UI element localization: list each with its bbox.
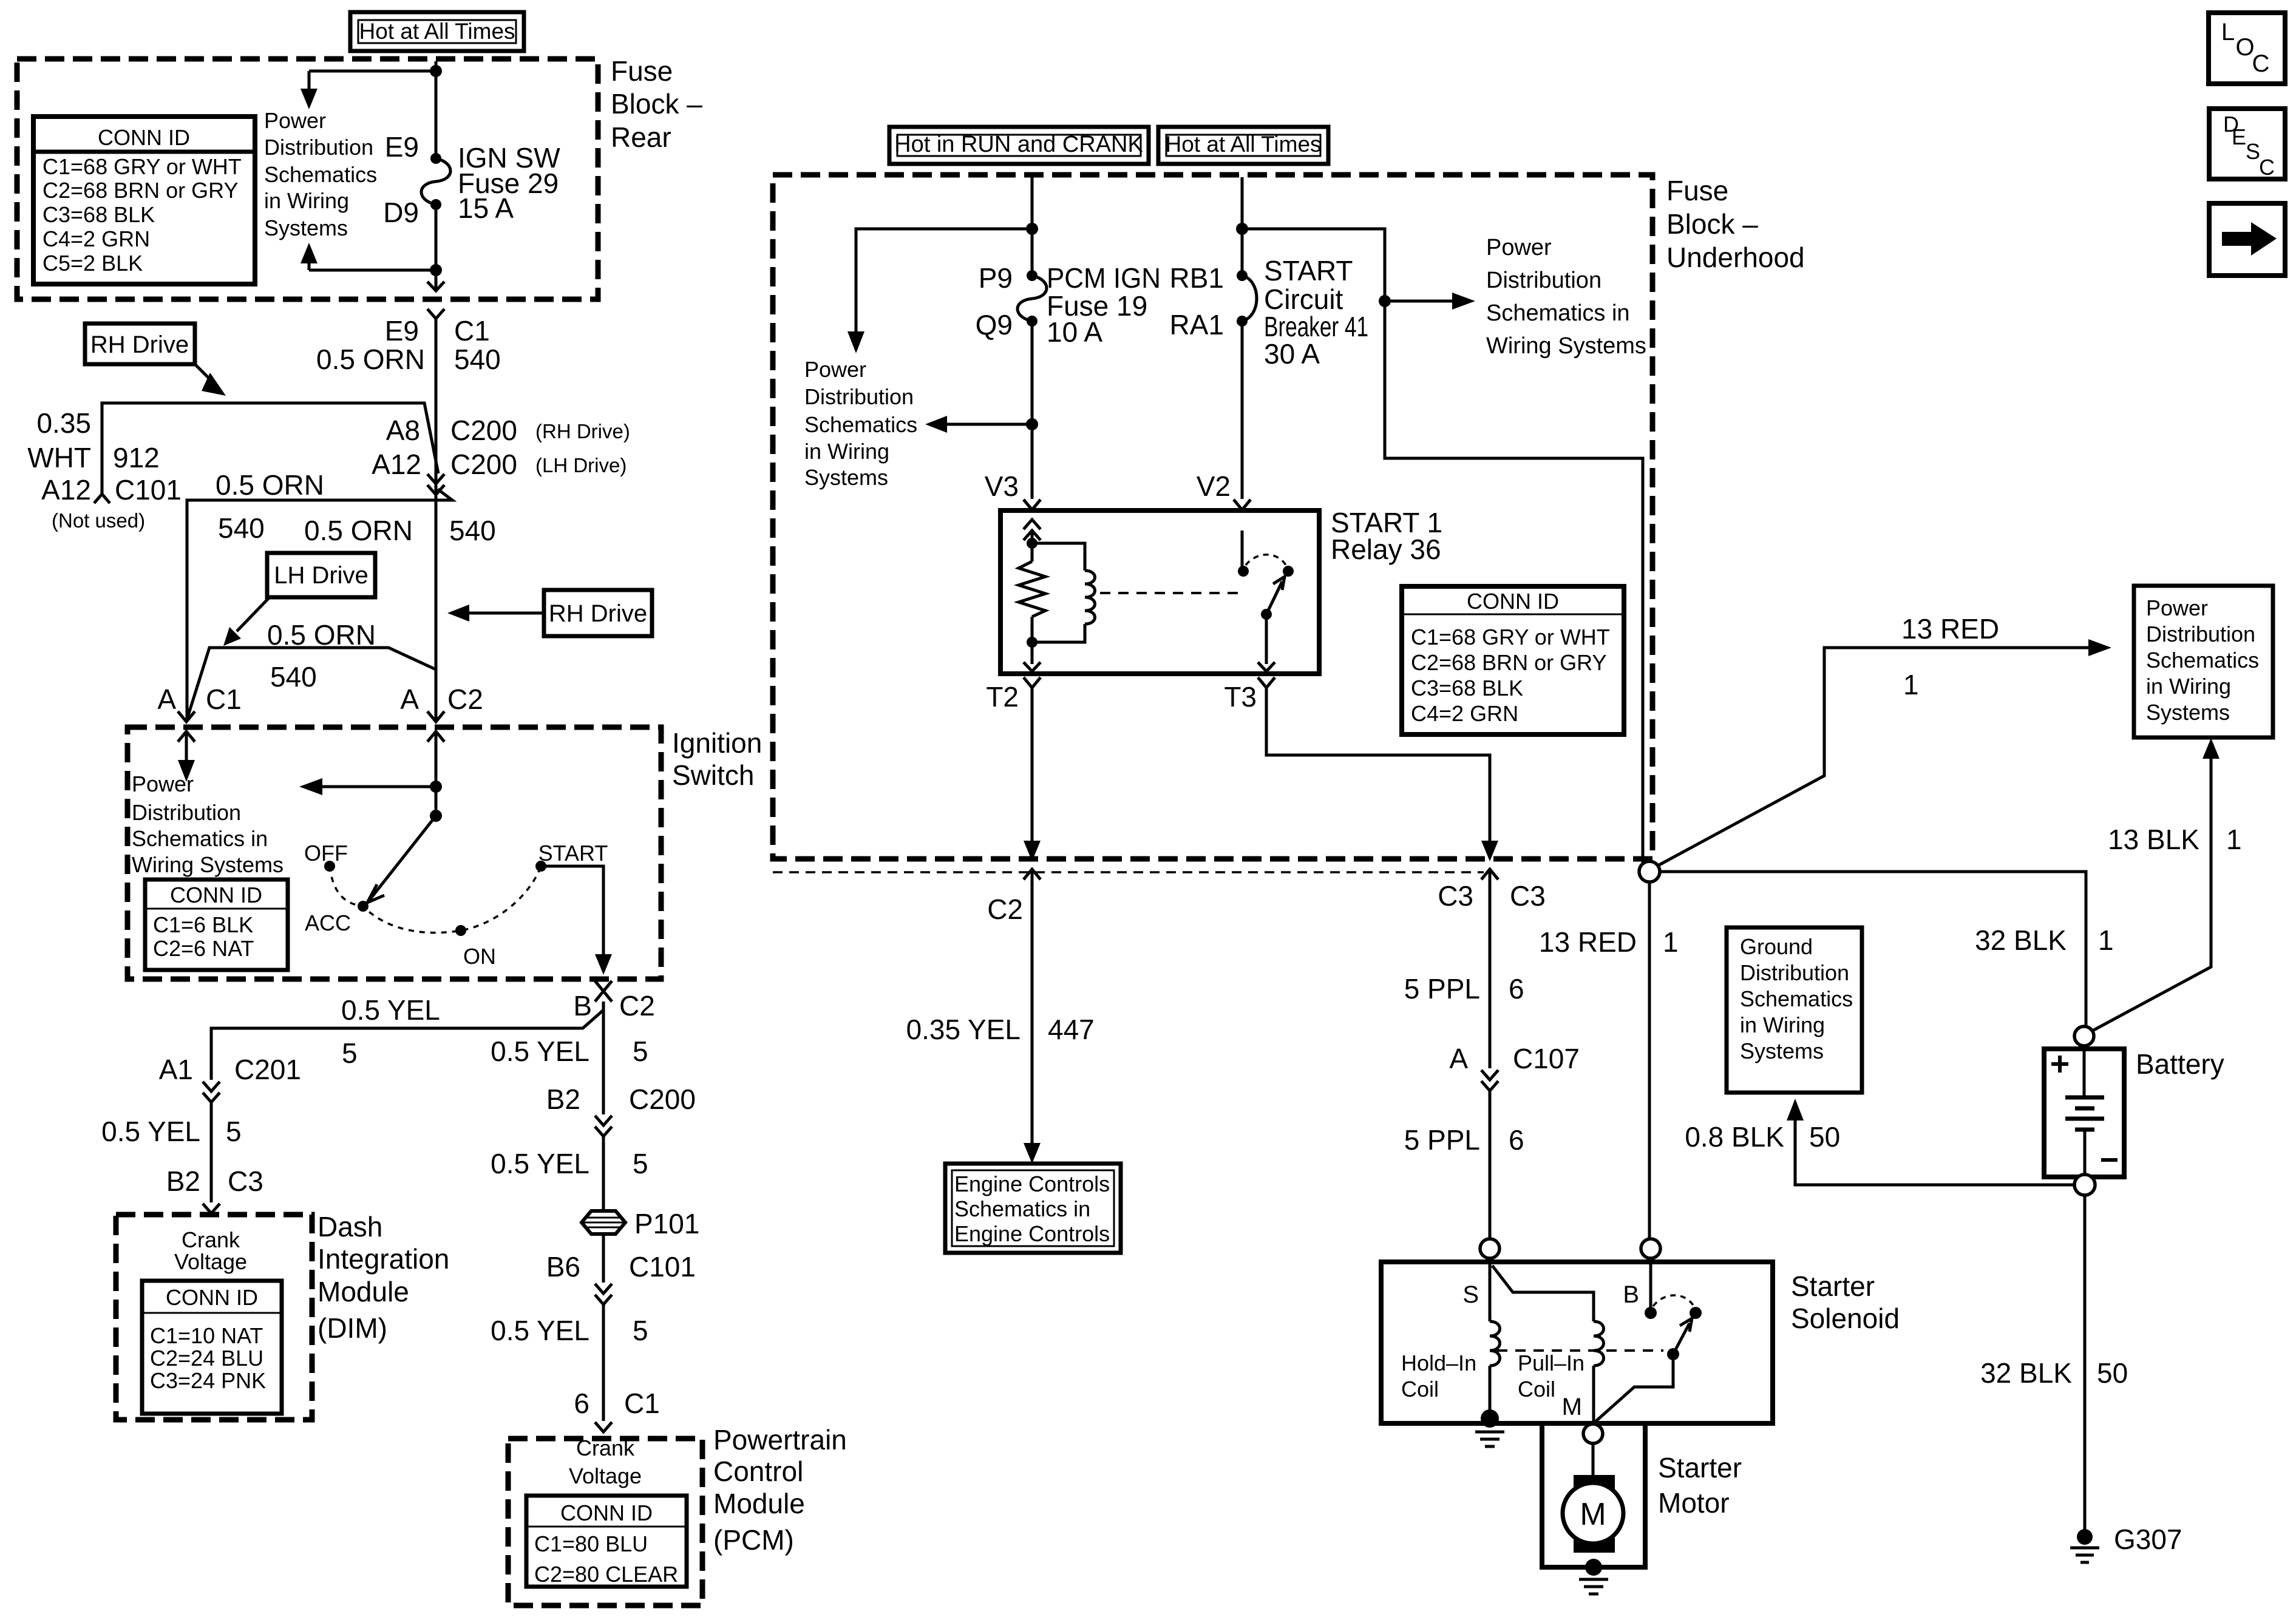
Power Distribution Schematics in Wiring Systems box (right): [2134, 586, 2273, 737]
connector C201 double chevron: [203, 1082, 220, 1102]
svg-text:Ground: Ground: [1740, 934, 1813, 959]
label 13 RED / 1 (top): [1901, 613, 1999, 700]
svg-text:Distribution: Distribution: [804, 384, 914, 409]
svg-text:6: 6: [574, 1388, 589, 1419]
wire branch to left ref arrow: [856, 229, 1032, 331]
svg-text:0.5 YEL: 0.5 YEL: [341, 994, 440, 1026]
svg-text:in Wiring: in Wiring: [264, 188, 349, 213]
wire branch lower horizontal 540: [187, 489, 452, 721]
svg-text:Hot in RUN and CRANK: Hot in RUN and CRANK: [894, 132, 1143, 157]
svg-text:0.8 BLK: 0.8 BLK: [1685, 1121, 1784, 1153]
svg-text:Distribution: Distribution: [1740, 960, 1849, 985]
terminal M circle: [1583, 1424, 1603, 1443]
arrow from RH Drive box to wire: [469, 612, 544, 615]
svg-text:Hot at All Times: Hot at All Times: [359, 19, 515, 44]
svg-text:C3: C3: [228, 1165, 263, 1197]
svg-text:Rear: Rear: [611, 121, 671, 153]
svg-text:A12: A12: [372, 449, 421, 480]
svg-text:Pull–In: Pull–In: [1518, 1351, 1584, 1375]
connector A/C1 chevron: [178, 711, 195, 722]
svg-text:C200: C200: [629, 1083, 696, 1115]
svg-text:B2: B2: [166, 1165, 200, 1197]
node junction to schematics arrow: [1026, 418, 1038, 430]
label Fuse Block - Underhood: [1666, 175, 1805, 273]
wire below resistor: [1031, 617, 1034, 664]
svg-text:Integration: Integration: [318, 1243, 449, 1275]
wire 13 RED to power distribution (diagonal up): [1658, 648, 2088, 866]
svg-text:447: 447: [1048, 1014, 1095, 1045]
wire T3 down and right: [1266, 688, 1490, 841]
connector chevron into PCM: [595, 1422, 612, 1432]
relay coil winding: [1032, 543, 1095, 642]
connector half below border at A/C2: [427, 731, 444, 742]
wire 13 RED down to solenoid B: [1648, 882, 1651, 1239]
label 0.8 BLK | 50: [1685, 1121, 1840, 1153]
node junction on right branch: [1379, 295, 1391, 307]
svg-text:540: 540: [218, 512, 265, 544]
svg-text:C1: C1: [206, 683, 242, 715]
node coil top: [1027, 538, 1038, 549]
svg-text:P9: P9: [979, 262, 1013, 294]
wire below breaker: [1241, 321, 1244, 499]
svg-text:0.5 YEL: 0.5 YEL: [491, 1148, 589, 1179]
wire branch right to underhood exit: [1242, 229, 1643, 863]
wire 0.5 YEL from B/C2 to DIM and PCM: [211, 1002, 603, 1080]
svg-text:C3: C3: [1510, 880, 1546, 912]
rotor arrow toward ACC: [370, 816, 436, 899]
svg-text:in Wiring: in Wiring: [804, 439, 889, 464]
svg-text:A: A: [1449, 1043, 1468, 1074]
svg-text:C3=68 BLK: C3=68 BLK: [1411, 676, 1523, 700]
svg-text:Power: Power: [264, 108, 326, 133]
label Crank Voltage (PCM): [569, 1436, 642, 1488]
svg-text:L: L: [2221, 19, 2235, 46]
Engine Controls reference box: [945, 1164, 1121, 1253]
connector V3 chevron: [1024, 500, 1041, 510]
Powertrain Control Module dashed enclosure: [508, 1439, 702, 1605]
svg-text:Voltage: Voltage: [569, 1463, 642, 1488]
svg-text:Starter: Starter: [1658, 1452, 1742, 1483]
connector half below border at A/C1 with ref arrow: [178, 731, 195, 782]
svg-text:C: C: [2259, 155, 2275, 180]
conn C200 (RH Drive): [450, 415, 630, 446]
connector half chevron below border: [427, 309, 444, 319]
svg-text:C3=68 BLK: C3=68 BLK: [42, 202, 155, 227]
circuit breaker START Circuit Breaker 41 30 A: [1237, 270, 1257, 327]
svg-text:A: A: [400, 683, 419, 715]
svg-text:1: 1: [1903, 669, 1919, 700]
svg-text:Dash: Dash: [318, 1211, 382, 1242]
fuse IGN SW Fuse 29 15 A: [421, 153, 450, 210]
connector C2 chevron below border: [1024, 869, 1041, 880]
label 32 BLK | 50: [1980, 1357, 2128, 1389]
arrow left to schematics note: [947, 423, 1032, 426]
arrow from RH Drive box: [195, 364, 214, 383]
svg-text:C1: C1: [454, 315, 490, 347]
svg-text:50: 50: [1809, 1121, 1840, 1153]
LH Drive callout box: [267, 553, 375, 597]
svg-text:10 A: 10 A: [1047, 316, 1102, 348]
svg-text:Distribution: Distribution: [264, 135, 373, 160]
connector A/C2 chevron: [427, 711, 444, 722]
svg-text:CONN ID: CONN ID: [98, 125, 190, 150]
wire 0.5 YEL 5 down to DIM: [210, 1102, 213, 1202]
wire spec 0.5 ORN 540 (LH branch): [267, 619, 376, 693]
thin dashed connector line C2-C3: [773, 871, 1484, 873]
label 13 RED | 1 (solenoid feed): [1539, 926, 1679, 958]
switch position ON: [455, 925, 496, 969]
connector X at B/C2: [595, 981, 612, 1002]
connector C200 double chevron: [595, 1116, 612, 1136]
svg-text:C2: C2: [619, 990, 655, 1022]
svg-text:C4=2 GRN: C4=2 GRN: [42, 226, 150, 251]
label Powertrain Control Module (PCM): [713, 1424, 847, 1556]
svg-text:C2=24 BLU: C2=24 BLU: [150, 1346, 263, 1371]
wire 0.5 YEL down to PCM: [602, 1004, 605, 1114]
label 0.5 YEL | 5 (right of C2): [491, 1036, 648, 1067]
svg-text:ACC: ACC: [305, 910, 351, 935]
svg-text:B: B: [1623, 1281, 1639, 1308]
svg-text:6: 6: [1509, 973, 1524, 1005]
svg-text:0.35 YEL: 0.35 YEL: [906, 1014, 1021, 1045]
label 32 BLK | 1: [1975, 924, 2114, 956]
svg-text:LH Drive: LH Drive: [274, 562, 369, 589]
svg-text:C1=68 GRY or WHT: C1=68 GRY or WHT: [1411, 625, 1610, 649]
starter motor enclosure: [1542, 1423, 1645, 1567]
svg-text:RH Drive: RH Drive: [90, 331, 189, 358]
CONN ID table (PCM): [526, 1496, 687, 1587]
svg-text:PCM IGN: PCM IGN: [1047, 262, 1161, 294]
node junction to ref arrow: [430, 781, 442, 793]
svg-text:Voltage: Voltage: [174, 1249, 247, 1274]
svg-text:T3: T3: [1224, 681, 1257, 713]
svg-text:30 A: 30 A: [1264, 338, 1320, 370]
ground (starter motor): [1579, 1559, 1608, 1594]
RH Drive callout box (right): [544, 590, 652, 636]
svg-text:(DIM): (DIM): [318, 1312, 387, 1344]
solenoid switch contacts: [1595, 1258, 1702, 1422]
wire E9 to C200: [435, 319, 438, 722]
label 13 BLK | 1: [2108, 824, 2242, 855]
svg-text:S: S: [1462, 1281, 1479, 1308]
svg-text:Systems: Systems: [804, 465, 888, 490]
conn C3 | C3 labels: [1438, 880, 1546, 912]
solenoid actuation dashed link: [1497, 1349, 1663, 1352]
svg-text:Powertrain: Powertrain: [713, 1424, 847, 1456]
CONN ID table (rear fuse block): [33, 117, 255, 284]
svg-text:Hold–In: Hold–In: [1401, 1351, 1476, 1375]
label Hold-In Coil: [1401, 1351, 1476, 1402]
label IGN SW Fuse 29 15 A: [458, 142, 560, 224]
CONN ID table (underhood): [1402, 586, 1624, 734]
svg-text:Systems: Systems: [2146, 700, 2230, 725]
wire 5 PPL 6 down to C107: [1489, 869, 1492, 1068]
svg-text:C200: C200: [450, 415, 517, 446]
svg-text:Battery: Battery: [2136, 1048, 2224, 1080]
wire 5 PPL 6 to solenoid S: [1489, 1091, 1492, 1239]
wire from Hot at All Times down to fuse 29: [435, 61, 438, 158]
forward arrow reference box: [2209, 203, 2285, 276]
dashed switch arc: [330, 866, 541, 933]
wire branch left with up arrow: [309, 269, 436, 272]
fuse PCM IGN Fuse 19 10 A: [1017, 270, 1047, 327]
svg-text:32 BLK: 32 BLK: [1975, 924, 2067, 956]
relay actuation dashed link: [1100, 592, 1238, 594]
svg-text:Schematics: Schematics: [264, 162, 377, 187]
Battery: [2044, 1046, 2124, 1177]
wire to splice P101: [602, 1136, 605, 1210]
svg-text:13 RED: 13 RED: [1901, 613, 1999, 645]
header box "Hot at All Times" (rear fuse block): [350, 12, 524, 51]
svg-text:RH Drive: RH Drive: [549, 600, 647, 627]
header box "Hot at All Times" (underhood): [1158, 127, 1328, 164]
svg-text:Fuse: Fuse: [1666, 175, 1728, 206]
svg-text:T2: T2: [986, 681, 1019, 713]
label 0.35 YEL | 447: [906, 1014, 1095, 1045]
svg-text:(LH Drive): (LH Drive): [535, 454, 627, 476]
note Power Distribution Schematics in Wiring Systems (rear): [264, 108, 377, 240]
svg-text:5: 5: [342, 1037, 358, 1069]
wire branch left to power distribution arrow: [309, 70, 436, 73]
svg-text:B2: B2: [546, 1083, 580, 1115]
wire hold-in coil to ground: [1489, 1366, 1492, 1417]
wire 0.5 YEL 5 to PCM: [602, 1304, 605, 1421]
svg-text:CONN ID: CONN ID: [166, 1285, 258, 1310]
wire branch A8/A12 upper horizontal: [102, 403, 438, 493]
svg-text:0.35: 0.35: [36, 407, 91, 439]
svg-text:C107: C107: [1513, 1043, 1580, 1074]
svg-text:CONN ID: CONN ID: [170, 883, 262, 907]
connector C3 chevron below border: [1481, 869, 1498, 880]
svg-text:Schematics: Schematics: [1740, 986, 1853, 1011]
svg-text:Distribution: Distribution: [1486, 268, 1601, 293]
svg-text:5: 5: [633, 1036, 648, 1067]
wire 0.8 BLK 50 from ground dist to battery negative: [1795, 1120, 2074, 1185]
svg-text:G307: G307: [2114, 1524, 2182, 1555]
svg-text:Wiring Systems: Wiring Systems: [1486, 333, 1646, 359]
node junction: [1026, 223, 1038, 235]
wire exiting fuse block with open arrow: [435, 270, 438, 290]
svg-text:Ignition: Ignition: [672, 727, 762, 759]
terminal S circle: [1480, 1239, 1500, 1258]
Starter Solenoid box: [1381, 1262, 1773, 1423]
svg-text:C5=2 BLK: C5=2 BLK: [42, 251, 143, 276]
svg-text:0.5 ORN: 0.5 ORN: [216, 469, 324, 501]
svg-text:C201: C201: [234, 1054, 301, 1085]
svg-text:Power: Power: [1486, 235, 1552, 260]
svg-text:C2=68 BRN or GRY: C2=68 BRN or GRY: [1411, 650, 1606, 675]
svg-text:C2: C2: [987, 893, 1023, 925]
CONN ID table (DIM): [142, 1281, 282, 1414]
svg-text:Power: Power: [132, 771, 194, 796]
svg-text:Crank: Crank: [576, 1436, 635, 1460]
svg-text:540: 540: [449, 515, 496, 546]
terminal B circle: [1641, 1239, 1660, 1258]
svg-text:5 PPL: 5 PPL: [1404, 1124, 1480, 1156]
svg-text:0.5 ORN: 0.5 ORN: [267, 619, 376, 651]
splice P101: [582, 1208, 699, 1239]
svg-text:Engine Controls: Engine Controls: [954, 1171, 1110, 1196]
node junction at top of fuse 29 feed: [430, 65, 442, 77]
svg-text:A12: A12: [41, 474, 91, 506]
svg-text:Switch: Switch: [672, 759, 754, 791]
svg-text:E9: E9: [385, 315, 419, 347]
svg-text:Module: Module: [713, 1488, 805, 1519]
svg-text:C1: C1: [624, 1388, 660, 1419]
node junction to rotor: [430, 810, 442, 822]
wire START to B/C2: [541, 866, 603, 954]
svg-text:OFF: OFF: [304, 841, 348, 866]
pin A1 conn C201: [159, 1054, 301, 1085]
svg-text:Schematics in: Schematics in: [132, 826, 268, 851]
svg-text:Systems: Systems: [264, 215, 348, 240]
arrow from LH Drive box: [237, 597, 270, 631]
svg-text:CONN ID: CONN ID: [1467, 589, 1559, 614]
pin A conn C107: [1449, 1043, 1580, 1074]
Fuse Block - Rear dashed enclosure: [17, 59, 598, 299]
wire pull-in coil to M: [1592, 1366, 1595, 1423]
label START Circuit Breaker 41 30 A: [1264, 255, 1368, 370]
svg-text:540: 540: [454, 344, 501, 375]
svg-text:C3=24 PNK: C3=24 PNK: [150, 1368, 266, 1393]
svg-text:5: 5: [633, 1315, 648, 1346]
svg-text:D9: D9: [383, 197, 419, 228]
svg-text:C1=6 BLK: C1=6 BLK: [153, 912, 253, 937]
label START 1 Relay 36: [1331, 507, 1442, 565]
wire from Hot in RUN and CRANK: [1031, 177, 1034, 276]
svg-text:Block –: Block –: [1666, 208, 1758, 240]
note Power Distribution Schematics in Wiring Systems (ignition): [132, 771, 284, 877]
svg-text:540: 540: [270, 661, 317, 693]
arrow right to schematics note: [1385, 300, 1452, 303]
svg-text:Schematics: Schematics: [2146, 648, 2259, 673]
svg-text:0.5 ORN: 0.5 ORN: [316, 344, 425, 375]
svg-text:C2: C2: [447, 683, 483, 715]
pin 6 conn C1: [574, 1388, 659, 1419]
relay T2 exit open arrow: [1024, 662, 1041, 671]
svg-text:WHT: WHT: [27, 442, 91, 473]
svg-text:1: 1: [2226, 824, 2242, 855]
label Ignition Switch: [672, 727, 762, 791]
battery negative terminal circle: [2074, 1175, 2095, 1195]
svg-text:C4=2 GRN: C4=2 GRN: [1411, 701, 1518, 726]
label 0.5 YEL | 5: [491, 1315, 648, 1346]
label 0.5 YEL | 5: [101, 1116, 241, 1147]
svg-text:Hot at All Times: Hot at All Times: [1165, 132, 1321, 157]
svg-text:15 A: 15 A: [458, 192, 514, 224]
svg-text:Engine Controls: Engine Controls: [954, 1221, 1110, 1246]
pull-in coil winding: [1594, 1321, 1604, 1366]
pin B2 conn C200: [546, 1083, 696, 1115]
connector T3 chevron: [1258, 677, 1275, 688]
note Power Distribution Schematics in Wiring Systems (left): [804, 357, 917, 490]
label 5 PPL | 6 (lower): [1404, 1124, 1524, 1156]
node coil bottom: [1027, 637, 1038, 648]
label 5 PPL | 6: [1404, 973, 1524, 1005]
svg-text:START: START: [1264, 255, 1353, 286]
svg-text:13 BLK: 13 BLK: [2108, 824, 2199, 855]
svg-text:Distribution: Distribution: [132, 800, 241, 825]
svg-text:1: 1: [2098, 924, 2114, 956]
wire to coil node: [1031, 531, 1034, 561]
arrow left to schematics note: [322, 785, 436, 788]
svg-text:S: S: [2246, 139, 2260, 164]
svg-text:Schematics: Schematics: [804, 412, 917, 437]
svg-text:Wiring Systems: Wiring Systems: [132, 852, 284, 877]
svg-text:M: M: [1562, 1394, 1582, 1420]
wire S to coils: [1490, 1258, 1594, 1321]
svg-text:Schematics in: Schematics in: [1486, 300, 1630, 326]
label Crank Voltage (DIM): [174, 1227, 247, 1274]
label Pull-In Coil: [1518, 1351, 1584, 1402]
wire below fuse 19: [1031, 321, 1034, 499]
svg-text:START: START: [538, 841, 608, 866]
wire spec 0.35 WHT A12: [27, 407, 91, 506]
label Fuse Block - Rear: [611, 55, 702, 153]
conn C200 (LH Drive): [450, 449, 627, 480]
svg-text:Starter: Starter: [1791, 1270, 1875, 1302]
resistor (relay): [1019, 561, 1045, 617]
label Starter Motor: [1658, 1452, 1742, 1519]
arrow down to schematics note: [308, 71, 311, 89]
svg-text:B: B: [573, 990, 592, 1022]
circuit 912 C101: [113, 442, 182, 506]
svg-text:912: 912: [113, 442, 160, 473]
svg-text:Schematics in: Schematics in: [954, 1196, 1090, 1221]
wire 0.35 YEL 447: [1031, 869, 1034, 1143]
svg-text:C101: C101: [629, 1251, 696, 1283]
wire T2 down to border arrow: [1031, 688, 1034, 841]
svg-text:0.5 ORN: 0.5 ORN: [304, 515, 413, 546]
svg-text:Distribution: Distribution: [2146, 622, 2255, 646]
svg-text:in Wiring: in Wiring: [1740, 1012, 1825, 1037]
svg-text:V3: V3: [985, 470, 1019, 502]
Dash Integration Module dashed enclosure: [116, 1215, 312, 1420]
svg-text:in Wiring: in Wiring: [2146, 674, 2231, 699]
pin B6 conn C101: [546, 1251, 696, 1283]
svg-text:0.5 YEL: 0.5 YEL: [101, 1116, 200, 1147]
svg-text:Module: Module: [318, 1276, 409, 1307]
Ignition Switch dashed enclosure: [127, 727, 661, 979]
switch position OFF: [304, 841, 348, 872]
svg-text:RA1: RA1: [1170, 309, 1224, 341]
switch position START: [535, 841, 608, 872]
svg-text:13 RED: 13 RED: [1539, 926, 1637, 958]
svg-text:0.5 YEL: 0.5 YEL: [491, 1036, 589, 1067]
RH Drive callout box (upper): [85, 324, 195, 364]
svg-text:Relay 36: Relay 36: [1331, 534, 1441, 565]
svg-text:Crank: Crank: [182, 1227, 240, 1252]
svg-text:C1=10 NAT: C1=10 NAT: [150, 1323, 263, 1348]
svg-text:Q9: Q9: [976, 309, 1013, 341]
wire M to motor: [1592, 1443, 1595, 1478]
svg-text:Fuse: Fuse: [611, 55, 673, 87]
battery positive terminal circle: [2074, 1026, 2094, 1046]
Ground Distribution Schematics box: [1727, 927, 1862, 1093]
svg-text:B6: B6: [546, 1251, 580, 1283]
svg-text:50: 50: [2097, 1357, 2128, 1389]
LOC reference box: [2209, 13, 2285, 84]
node junction below fuse: [430, 264, 442, 276]
connector C200 double chevron: [427, 474, 444, 495]
svg-text:Systems: Systems: [1740, 1039, 1824, 1063]
wire ignition feed inside switch: [435, 731, 438, 816]
wire 13 BLK 1 diagonal to power dist box: [2093, 759, 2211, 1031]
svg-text:C200: C200: [450, 449, 517, 480]
node junction: [1236, 223, 1248, 235]
svg-text:C2=80 CLEAR: C2=80 CLEAR: [534, 1562, 678, 1587]
starter motor M: [1563, 1475, 1623, 1553]
